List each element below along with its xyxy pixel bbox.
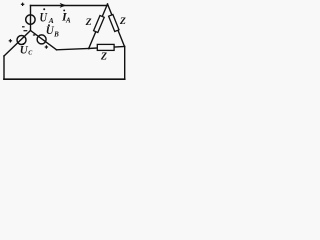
voltage source UA circle xyxy=(26,15,35,24)
svg-text:U: U xyxy=(40,9,48,24)
minus sign of UB xyxy=(33,34,35,36)
svg-text:Z: Z xyxy=(85,17,92,28)
wire delta right leg xyxy=(108,4,125,47)
wire left edge xyxy=(3,56,5,79)
impedance Z2 box (delta right leg) xyxy=(109,14,119,31)
wire bottom rail xyxy=(4,78,125,80)
wire right edge xyxy=(124,47,126,80)
impedance Z1 box (delta left leg) xyxy=(94,16,105,33)
wire B-phase diagonal xyxy=(31,31,57,50)
wire B-phase horizontal xyxy=(57,49,89,50)
svg-text:Z: Z xyxy=(119,16,126,27)
wire top rail A-phase xyxy=(31,5,108,7)
plus sign of UA xyxy=(21,3,24,6)
plus sign of UB xyxy=(45,45,48,48)
plus sign of UC xyxy=(9,39,12,42)
svg-text:B: B xyxy=(53,30,59,38)
wire A-phase vertical through source xyxy=(30,6,32,31)
label UC xyxy=(20,43,34,57)
svg-text:A: A xyxy=(48,16,54,25)
impedance Z3 box (delta bottom) xyxy=(97,44,114,50)
label IA xyxy=(61,9,71,24)
svg-text:Z: Z xyxy=(100,51,107,62)
wire delta bottom branch xyxy=(89,47,125,49)
label UA xyxy=(40,8,54,25)
wire C-phase diagonal xyxy=(4,31,31,57)
minus sign of UA xyxy=(22,26,25,28)
svg-text:A: A xyxy=(65,17,71,25)
minus sign of UC xyxy=(24,30,28,32)
label UB xyxy=(46,24,59,38)
voltage source UC circle xyxy=(17,36,26,45)
svg-text:U: U xyxy=(20,45,29,57)
current arrow I_A xyxy=(60,3,67,8)
voltage source UB circle xyxy=(37,35,46,44)
wire delta left leg xyxy=(89,4,108,49)
